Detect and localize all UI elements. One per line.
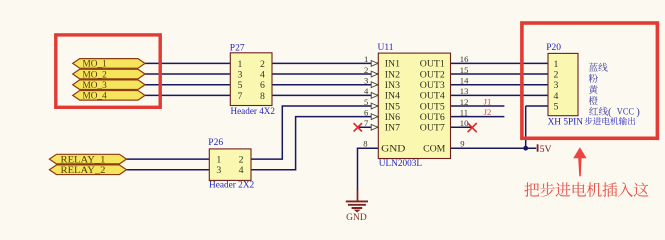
svg-text:4: 4: [554, 91, 559, 102]
svg-text:4: 4: [364, 86, 369, 96]
svg-text:IN2: IN2: [385, 69, 400, 80]
svg-text:IN7: IN7: [385, 123, 400, 134]
svg-text:J2: J2: [484, 107, 492, 117]
svg-text:3: 3: [554, 80, 559, 91]
svg-text:MO_2: MO_2: [83, 70, 108, 80]
svg-text:1: 1: [216, 155, 221, 166]
svg-text:2: 2: [260, 59, 265, 70]
svg-text:Header 4X2: Header 4X2: [231, 107, 276, 117]
svg-text:3: 3: [364, 76, 368, 86]
svg-text:OUT3: OUT3: [420, 80, 445, 91]
svg-text:9: 9: [460, 139, 464, 149]
svg-text:OUT7: OUT7: [420, 123, 445, 134]
svg-text:Header 2X2: Header 2X2: [209, 180, 254, 190]
svg-text:OUT4: OUT4: [420, 91, 445, 102]
svg-text:16: 16: [460, 54, 469, 64]
svg-text:4: 4: [260, 69, 265, 80]
svg-text:2: 2: [554, 69, 559, 80]
svg-text:3: 3: [216, 165, 221, 176]
svg-text:MO_4: MO_4: [83, 92, 108, 102]
svg-text:5: 5: [364, 97, 368, 107]
svg-text:ULN2003L: ULN2003L: [379, 159, 422, 169]
svg-text:5V: 5V: [540, 144, 552, 155]
svg-text:3: 3: [238, 69, 243, 80]
svg-text:7: 7: [364, 118, 369, 128]
svg-text:4: 4: [239, 165, 244, 176]
svg-text:GND: GND: [381, 144, 405, 155]
svg-text:MO_3: MO_3: [83, 81, 108, 91]
svg-text:RELAY_2: RELAY_2: [61, 166, 106, 176]
svg-text:VCC: VCC: [617, 107, 634, 117]
svg-text:10: 10: [460, 118, 469, 128]
svg-text:OUT1: OUT1: [420, 59, 445, 70]
svg-text:U11: U11: [378, 43, 394, 53]
svg-text:COM: COM: [423, 144, 446, 155]
svg-text:RELAY_1: RELAY_1: [61, 155, 106, 165]
svg-text:IN1: IN1: [385, 59, 400, 70]
svg-text:P27: P27: [230, 44, 245, 54]
svg-text:8: 8: [363, 139, 367, 149]
svg-text:GND: GND: [346, 213, 367, 223]
svg-text:7: 7: [238, 91, 243, 102]
svg-text:(: (: [608, 106, 612, 118]
svg-text:14: 14: [460, 76, 469, 86]
svg-text:12: 12: [460, 97, 469, 107]
svg-text:2: 2: [239, 155, 244, 166]
svg-text:IN3: IN3: [385, 80, 400, 91]
svg-text:P26: P26: [208, 138, 223, 148]
svg-text:6: 6: [364, 107, 369, 117]
svg-text:6: 6: [260, 80, 265, 91]
svg-text:13: 13: [460, 86, 469, 96]
svg-text:OUT5: OUT5: [420, 101, 445, 112]
svg-text:): ): [636, 106, 640, 118]
svg-text:IN6: IN6: [385, 112, 400, 123]
svg-text:J1: J1: [484, 96, 492, 106]
svg-text:5: 5: [554, 101, 559, 112]
svg-text:1: 1: [554, 59, 559, 70]
svg-text:2: 2: [364, 65, 368, 75]
svg-text:IN5: IN5: [385, 101, 400, 112]
svg-text:MO_1: MO_1: [83, 60, 108, 70]
svg-text:5: 5: [238, 80, 243, 91]
svg-text:IN4: IN4: [385, 91, 400, 102]
svg-text:P20: P20: [546, 43, 561, 53]
svg-text:8: 8: [260, 91, 265, 102]
svg-text:OUT2: OUT2: [420, 69, 445, 80]
svg-text:1: 1: [364, 54, 368, 64]
svg-text:1: 1: [238, 59, 243, 70]
svg-text:XH 5PIN: XH 5PIN: [548, 117, 584, 127]
svg-text:15: 15: [460, 65, 469, 75]
svg-text:11: 11: [460, 107, 468, 117]
svg-text:OUT6: OUT6: [420, 112, 445, 123]
